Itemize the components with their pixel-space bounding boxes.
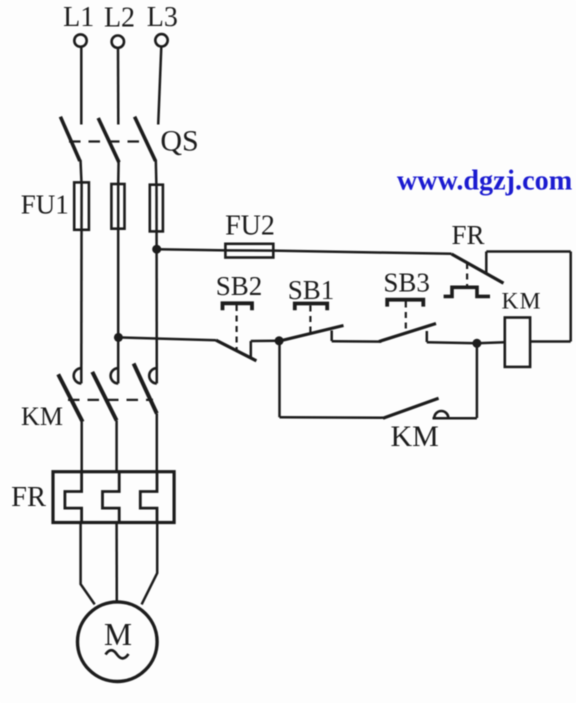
svg-text:L2: L2 bbox=[104, 3, 135, 34]
contactor KM aux latch blade bbox=[383, 398, 439, 418]
svg-text:FU2: FU2 bbox=[225, 211, 275, 242]
relay FR NC contact blade bbox=[452, 254, 504, 283]
svg-text:SB3: SB3 bbox=[383, 268, 430, 298]
button SB1 fixed terminal riser bbox=[330, 331, 333, 342]
svg-text:FU1: FU1 bbox=[21, 190, 69, 220]
wire FR box to motor (middle) bbox=[115, 523, 118, 603]
button SB2 NC blade bbox=[216, 340, 256, 361]
wire KM pole3 to FR box bbox=[156, 414, 159, 473]
wire control top rail (FU2 to FR) bbox=[273, 251, 451, 254]
wire latch loop right vertical bbox=[476, 343, 479, 418]
wire latch loop bottom rail bbox=[280, 416, 385, 419]
wire right edge to KM coil bbox=[530, 340, 571, 343]
svg-text:KM: KM bbox=[501, 289, 541, 315]
wire SB1 to SB3 bbox=[332, 340, 382, 343]
button SB3 dashed stem bbox=[405, 302, 407, 334]
wire through fuse 3 bbox=[155, 185, 158, 383]
wire QS pole3 to fuse 3 bbox=[155, 160, 158, 186]
svg-text:KM: KM bbox=[391, 420, 439, 453]
button SB1 dashed stem bbox=[309, 306, 311, 334]
svg-text:QS: QS bbox=[160, 125, 198, 158]
motor AC tilde bbox=[106, 650, 129, 658]
thermal relay FR heater element 1 bbox=[65, 472, 82, 523]
button SB1 cap bbox=[295, 304, 327, 311]
contactor KM main pole 2 blade bbox=[92, 372, 116, 421]
wire KM pole1 to FR box bbox=[80, 422, 83, 472]
switch QS pole 1 blade bbox=[60, 117, 80, 161]
wire right edge down bbox=[569, 252, 572, 342]
svg-text:L3: L3 bbox=[147, 2, 178, 33]
contactor KM main pole 1 fixed contact arc bbox=[74, 368, 82, 383]
svg-text:SB1: SB1 bbox=[288, 275, 335, 305]
node junction left (SB1 / latch) bbox=[275, 336, 284, 345]
node junction right (coil / latch / SB3) bbox=[472, 339, 481, 348]
button SB3 NO blade bbox=[379, 324, 436, 342]
contactor KM main pole 2 fixed contact arc bbox=[111, 368, 119, 383]
svg-text:L1: L1 bbox=[63, 2, 94, 33]
wire L1 terminal to QS bbox=[80, 47, 83, 125]
wire SB2 to junction bbox=[251, 340, 279, 343]
contactor KM main linkage dashed line bbox=[68, 399, 153, 401]
relay FR thermal actuator symbol bbox=[444, 287, 490, 296]
fuse FU1 element 1 bbox=[74, 182, 89, 229]
contactor KM aux fixed contact arc bbox=[434, 411, 448, 418]
terminal L2 bbox=[112, 36, 124, 48]
svg-text:M: M bbox=[104, 617, 132, 652]
node junction on L3 line (control tap) bbox=[152, 245, 161, 254]
button SB2 cap bbox=[223, 303, 253, 310]
wire latch arc to right vertical bbox=[433, 417, 477, 420]
wire through fuse FU2 bbox=[226, 249, 273, 252]
node junction on L2 line (control tap) bbox=[114, 333, 123, 342]
button SB2 dashed stem bbox=[236, 305, 238, 350]
wire latch loop left vertical bbox=[278, 341, 281, 418]
svg-text:FR: FR bbox=[11, 482, 46, 513]
wire FR box to motor (right) bbox=[142, 523, 158, 605]
relay FR dashed actuator link bbox=[466, 263, 468, 287]
fuse FU1 element 3 bbox=[150, 185, 163, 232]
thermal relay FR heater element 2 bbox=[103, 472, 120, 523]
thermal relay FR heater box bbox=[53, 472, 174, 523]
wire QS pole1 to fuse 1 bbox=[81, 160, 82, 183]
fuse FU1 element 2 bbox=[111, 184, 124, 229]
wire control bottom rail from L2 to SB2 bbox=[118, 337, 216, 340]
wire QS pole2 to fuse 2 bbox=[117, 161, 120, 185]
terminal L1 bbox=[74, 34, 86, 46]
wire L2 terminal to QS bbox=[117, 48, 120, 124]
wire KM pole2 to FR box bbox=[115, 421, 118, 473]
svg-text:SB2: SB2 bbox=[216, 271, 263, 301]
button SB2 fixed terminal riser bbox=[250, 341, 253, 359]
svg-text:www.dgzj.com: www.dgzj.com bbox=[397, 166, 572, 197]
switch QS pole 2 blade bbox=[98, 118, 119, 162]
wire control top rail (left of FU2) bbox=[157, 249, 226, 250]
wire through fuse 2 (to KM pole2) bbox=[117, 185, 120, 383]
contactor KM main pole 3 fixed contact arc bbox=[149, 368, 157, 383]
wire SB3 to junction bbox=[427, 342, 477, 343]
coil KM bbox=[505, 318, 530, 367]
svg-text:FR: FR bbox=[451, 220, 484, 250]
button SB3 fixed terminal riser bbox=[426, 331, 429, 342]
wire through fuse 1 bbox=[80, 183, 83, 383]
fuse FU2 bbox=[225, 244, 273, 258]
terminal L3 bbox=[155, 34, 167, 46]
wire FR box to motor (left) bbox=[81, 523, 95, 605]
button SB3 cap bbox=[387, 300, 423, 307]
thermal relay FR heater element 3 bbox=[140, 472, 157, 523]
wire L3 terminal to QS bbox=[158, 47, 161, 125]
contactor KM main pole 3 blade bbox=[134, 364, 157, 414]
wire top rail right of FR bbox=[486, 250, 570, 253]
contactor KM main pole 1 blade bbox=[58, 374, 82, 422]
button SB1 NO blade bbox=[280, 326, 344, 342]
switch QS linkage dashed line bbox=[69, 140, 148, 142]
svg-text:KM: KM bbox=[21, 402, 63, 431]
relay FR NC contact fixed terminal riser bbox=[485, 252, 488, 275]
wire KM coil to junction bbox=[477, 342, 505, 343]
motor M circle bbox=[78, 602, 158, 682]
switch QS pole 3 blade bbox=[135, 117, 156, 161]
